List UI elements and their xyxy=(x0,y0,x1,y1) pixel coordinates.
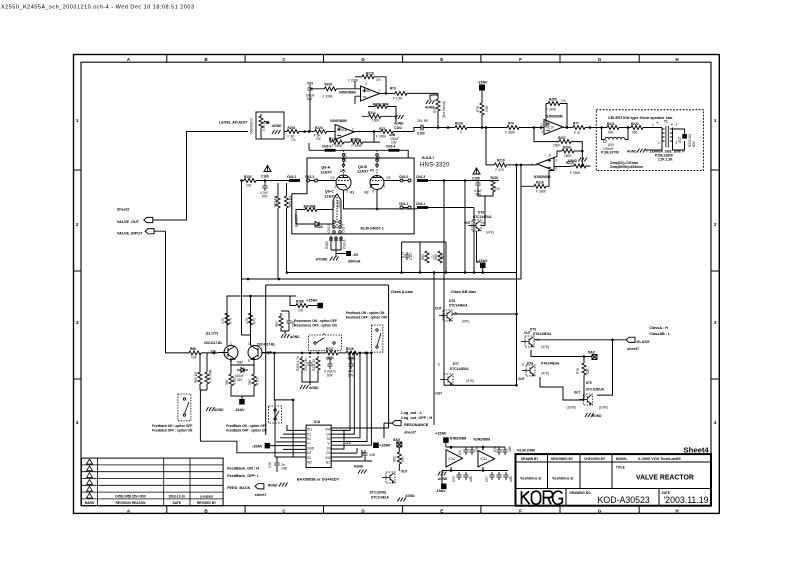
svg-text:DT2 (100K): DT2 (100K) xyxy=(370,491,387,495)
resistor R66 xyxy=(189,351,201,355)
input RC on grid wire xyxy=(242,180,245,182)
wire VALVE input net down xyxy=(242,181,251,336)
resistor R82 vertical xyxy=(398,447,400,452)
svg-text:Class AB bias: Class AB bias xyxy=(451,290,476,294)
svg-text:R218: R218 xyxy=(366,72,374,76)
svg-text:1%: 1% xyxy=(376,78,381,82)
column ticks top xyxy=(167,55,639,63)
wire to speaker box xyxy=(585,127,596,129)
resistor R210 loop lower xyxy=(521,165,534,186)
svg-text:DTC144EUA: DTC144EUA xyxy=(450,367,469,371)
svg-text:R217: R217 xyxy=(326,347,334,351)
svg-text:AGND: AGND xyxy=(438,477,448,481)
svg-text:3: 3 xyxy=(346,190,348,194)
resistor R208 xyxy=(344,141,351,143)
wire DT4 out chain xyxy=(540,377,583,400)
svg-text:-6V: -6V xyxy=(353,253,359,257)
connector arrow GLASS xyxy=(626,337,635,342)
big option box xyxy=(266,285,389,435)
switch SW dashed bottom-left xyxy=(178,394,191,421)
svg-text:F 324K: F 324K xyxy=(546,108,557,112)
svg-text:IN1: IN1 xyxy=(307,428,312,432)
svg-text:560: 560 xyxy=(632,131,638,135)
svg-text:60V: 60V xyxy=(692,140,696,147)
svg-text:X-2950 VOX ToneLabSE: X-2950 VOX ToneLabSE xyxy=(638,457,681,461)
svg-text:CHECKED BY: CHECKED BY xyxy=(584,457,606,461)
svg-text:KLM-2406T-1: KLM-2406T-1 xyxy=(361,227,384,231)
resistor R223 xyxy=(315,130,327,134)
resistor R80 xyxy=(438,251,442,263)
pot VR 500KB box xyxy=(256,112,284,139)
svg-text:HNS-3320: HNS-3320 xyxy=(420,162,450,168)
svg-text:R62 1M: R62 1M xyxy=(274,195,278,207)
svg-text:R221: R221 xyxy=(607,122,615,126)
svg-text:HTGND: HTGND xyxy=(316,258,328,262)
wire VALVE_INPUT down to Q4 base line xyxy=(154,231,189,353)
grid wire right xyxy=(384,180,400,182)
capacitor C96 xyxy=(274,460,279,468)
svg-text:R2: R2 xyxy=(387,176,391,180)
svg-text:C98: C98 xyxy=(326,357,332,361)
feedback tap wire xyxy=(274,353,293,457)
svg-text:CN2-4: CN2-4 xyxy=(386,145,395,149)
svg-text:R70: R70 xyxy=(229,318,233,324)
svg-text:Zimp(800Hz)=653ohm: Zimp(800Hz)=653ohm xyxy=(610,165,643,169)
svg-text:K1: K1 xyxy=(350,191,354,195)
svg-text:D4: D4 xyxy=(326,432,330,436)
svg-text:F 330K: F 330K xyxy=(570,171,581,175)
resistor R218 feedback xyxy=(355,76,362,78)
switch SW dashed 2 xyxy=(371,325,383,352)
svg-text:P19ILSY700: P19ILSY700 xyxy=(601,151,619,155)
svg-text:VALVE REACTOR: VALVE REACTOR xyxy=(636,474,694,481)
svg-text:-15AV: -15AV xyxy=(477,81,488,85)
svg-text:VALVE_INPUT: VALVE_INPUT xyxy=(117,231,143,235)
svg-text:R205: R205 xyxy=(549,98,557,102)
wire R203 to opamp stage xyxy=(299,131,315,133)
svg-text:C107: C107 xyxy=(409,252,413,260)
connector CN2-4 xyxy=(389,149,400,152)
op-amp U3 NJM2068M xyxy=(544,120,563,135)
svg-text:Resonance ON : option OFF: Resonance ON : option OFF xyxy=(294,319,337,323)
svg-text:-15AV: -15AV xyxy=(252,444,263,448)
column ticks bottom xyxy=(167,506,639,514)
inductor L2 xyxy=(605,137,625,139)
svg-text:DTC115EUA: DTC115EUA xyxy=(586,388,605,392)
svg-text:Yoshihiro-S: Yoshihiro-S xyxy=(520,477,541,481)
resistor R209 xyxy=(324,87,336,91)
svg-text:150K: 150K xyxy=(372,119,380,123)
svg-text:1: 1 xyxy=(714,118,717,123)
svg-text:Q6-A: Q6-A xyxy=(321,166,330,170)
svg-text:R63 1M: R63 1M xyxy=(289,195,293,207)
wire to transformer xyxy=(643,127,662,129)
svg-text:u0B: u0B xyxy=(469,476,473,482)
resistor R205 feedback xyxy=(546,104,548,128)
LED3 xyxy=(296,218,315,224)
board outline KLM-2406T-1 xyxy=(292,158,414,234)
svg-text:OUT: OUT xyxy=(678,136,682,143)
svg-text:7: 7 xyxy=(379,89,381,93)
resistor R78 vertical xyxy=(583,357,585,364)
svg-text:2: 2 xyxy=(541,123,543,127)
svg-text:Q6-B: Q6-B xyxy=(358,165,367,169)
wire pot to R203 xyxy=(284,131,287,133)
svg-text:Resonance OFF : option ON: Resonance OFF : option ON xyxy=(294,324,337,328)
vertical nets from tube block xyxy=(464,181,466,273)
svg-text:R204: R204 xyxy=(563,146,571,150)
wire heater to -6V xyxy=(331,250,346,254)
svg-text:Feedback OFF : option ON: Feedback OFF : option ON xyxy=(152,429,193,433)
svg-text:R76: R76 xyxy=(476,106,480,112)
svg-text:RGND: RGND xyxy=(592,414,602,418)
row numbers left xyxy=(76,118,79,425)
svg-text:Sheet2: Sheet2 xyxy=(117,208,129,212)
svg-text:DATE: DATE xyxy=(173,501,181,505)
svg-text:AGND: AGND xyxy=(290,335,300,339)
svg-text:IC11: IC11 xyxy=(481,457,488,461)
svg-text:NJM2068M: NJM2068M xyxy=(330,119,347,123)
svg-text:AGND: AGND xyxy=(405,494,415,498)
svg-text:3: 3 xyxy=(76,320,79,325)
svg-text:CN2-5: CN2-5 xyxy=(344,153,348,162)
svg-text:NJM2068M: NJM2068M xyxy=(534,175,551,179)
wire C168/R220 tap xyxy=(465,181,499,226)
svg-text:DT5: DT5 xyxy=(586,381,592,385)
connector CN2-1 xyxy=(400,206,411,209)
collector rail xyxy=(227,296,296,346)
svg-text:R213: R213 xyxy=(329,138,337,142)
resistor R224 xyxy=(455,126,467,130)
svg-text:OUT: OUT xyxy=(524,331,531,335)
column letters top xyxy=(127,57,680,62)
pot wiper xyxy=(259,116,263,128)
svg-text:T1: T1 xyxy=(664,120,668,124)
warning triangle C168 xyxy=(473,168,480,174)
pin circles under Q6-C xyxy=(333,221,342,234)
svg-text:DTC144EUA: DTC144EUA xyxy=(449,304,468,308)
long feed wires from upper-left xyxy=(200,390,306,453)
svg-text:S4: S4 xyxy=(327,437,331,441)
svg-text:1%: 1% xyxy=(561,99,566,103)
svg-text:IC10: IC10 xyxy=(449,457,456,461)
svg-text:DTA144EUA: DTA144EUA xyxy=(541,362,560,366)
wire DT3 to GLASS xyxy=(534,339,626,341)
capacitor C107 xyxy=(404,252,409,260)
svg-text:Sheet4: Sheet4 xyxy=(684,445,710,454)
svg-text:5AV: 5AV xyxy=(393,438,401,442)
svg-text:G: G xyxy=(598,508,602,513)
svg-text:R214: R214 xyxy=(368,111,376,115)
svg-text:R206 150K: R206 150K xyxy=(373,103,390,107)
wire jog to main line xyxy=(414,128,418,132)
resistor R206 xyxy=(375,105,387,109)
svg-text:(47K): (47K) xyxy=(462,320,470,324)
svg-text:33K: 33K xyxy=(248,378,252,385)
caps top xyxy=(463,447,468,455)
svg-text:DT7: DT7 xyxy=(453,362,459,366)
svg-text:C96: C96 xyxy=(268,462,272,468)
svg-text:FeedBack OFF : option ON: FeedBack OFF : option ON xyxy=(226,429,267,433)
svg-text:REVISED BY: REVISED BY xyxy=(197,501,217,505)
svg-text:LEVEL ADJUST: LEVEL ADJUST xyxy=(219,121,248,125)
svg-text:TLC: TLC xyxy=(345,441,352,445)
svg-text:CN2-7: CN2-7 xyxy=(342,224,346,233)
wire DT7 in xyxy=(453,384,517,386)
svg-text:u0B: u0B xyxy=(509,476,513,482)
connector arrow VALVE_INPUT xyxy=(145,229,154,234)
svg-text:DRAWING NO.: DRAWING NO. xyxy=(570,491,592,495)
svg-text:R223: R223 xyxy=(315,126,323,130)
svg-text:DT3: DT3 xyxy=(530,328,536,332)
bias network box xyxy=(402,242,446,273)
frame outer border xyxy=(74,55,720,514)
vertical nets into IC8 xyxy=(331,353,371,445)
svg-text:NJM2068M: NJM2068M xyxy=(474,438,491,442)
svg-text:3: 3 xyxy=(676,123,678,127)
power -15AV bottom xyxy=(239,399,245,405)
svg-text:1%: 1% xyxy=(316,137,321,141)
svg-text:2.2K:1.2K: 2.2K:1.2K xyxy=(658,157,673,161)
wire main xyxy=(426,127,455,129)
svg-text:C168: C168 xyxy=(472,177,480,181)
svg-text:50V: 50V xyxy=(476,193,483,197)
svg-text:X2550_K2455A_sch_20031210.sch-: X2550_K2455A_sch_20031210.sch-4 - Wed De… xyxy=(1,5,194,11)
connector arrow VALVE_OUT xyxy=(144,217,153,222)
frame inner border xyxy=(81,62,711,506)
switch SW dashed 1 xyxy=(309,333,342,351)
svg-text:D3: D3 xyxy=(326,451,330,455)
svg-text:OUT: OUT xyxy=(518,377,525,381)
svg-text:3.3K B: 3.3K B xyxy=(262,121,266,131)
resistor R159 vertical xyxy=(252,374,256,386)
svg-text:C97: C97 xyxy=(237,361,243,365)
svg-text:R74: R74 xyxy=(508,122,514,126)
svg-text:F 330K: F 330K xyxy=(536,190,547,194)
wire emitters to -15AV xyxy=(231,370,254,399)
svg-text:2SC4117-BL: 2SC4117-BL xyxy=(257,343,275,347)
wire DT3 emitter to 5AV xyxy=(531,350,592,357)
svg-text:6: 6 xyxy=(556,167,558,171)
resistor R207 loop xyxy=(534,128,559,142)
svg-text:CN2-2: CN2-2 xyxy=(305,175,314,179)
svg-text:sheet7: sheet7 xyxy=(627,347,639,351)
wire R73 to right xyxy=(407,92,438,94)
svg-text:+15AV: +15AV xyxy=(306,299,318,303)
svg-text:R222: R222 xyxy=(631,122,639,126)
svg-text:F 330K: F 330K xyxy=(352,144,363,148)
cathode bus xyxy=(344,190,418,209)
svg-text:+15AV: +15AV xyxy=(435,432,447,436)
svg-text:R209: R209 xyxy=(325,83,333,87)
svg-text:ClassAB : L: ClassAB : L xyxy=(649,332,671,336)
svg-text:GLASS: GLASS xyxy=(636,340,650,344)
svg-text:150K: 150K xyxy=(564,154,572,158)
svg-text:S3: S3 xyxy=(327,446,331,450)
OUT square xyxy=(682,134,687,139)
svg-text:L2: L2 xyxy=(603,140,607,144)
svg-text:C/u: C/u xyxy=(458,450,462,455)
svg-text:DTA144EUA: DTA144EUA xyxy=(533,332,552,336)
svg-text:Yoshihiro-S: Yoshihiro-S xyxy=(552,477,573,481)
power -6V xyxy=(346,251,351,256)
svg-text:4.7K: 4.7K xyxy=(221,317,225,324)
svg-text:CN2-5: CN2-5 xyxy=(327,224,331,233)
resistor R81 xyxy=(425,251,429,263)
resistor R71 vertical xyxy=(249,313,253,325)
resistor R70 vertical xyxy=(225,313,229,325)
svg-text:R220: R220 xyxy=(491,176,499,180)
capacitor C99 xyxy=(393,131,414,133)
svg-text:R160: R160 xyxy=(325,241,329,249)
resistor R72 xyxy=(381,130,393,134)
svg-text:4: 4 xyxy=(714,420,717,425)
svg-text:R78: R78 xyxy=(576,368,580,374)
svg-text:1: 1 xyxy=(352,128,354,132)
svg-text:DTC114E1A: DTC114E1A xyxy=(371,496,390,500)
svg-text:MODEL: MODEL xyxy=(616,457,628,461)
svg-text:C56: C56 xyxy=(475,446,479,452)
svg-text:AGND: AGND xyxy=(214,408,224,412)
svg-text:R67: R67 xyxy=(275,321,279,327)
svg-text:R66: R66 xyxy=(190,347,196,351)
svg-text:G: G xyxy=(598,57,602,62)
connector CN2-3b xyxy=(417,179,428,182)
heater pins below board xyxy=(329,236,343,250)
svg-text:AGND: AGND xyxy=(394,122,404,126)
svg-text:R77: R77 xyxy=(573,122,579,126)
svg-text:R205 4.7K: R205 4.7K xyxy=(296,355,300,371)
svg-text:Q4: Q4 xyxy=(211,350,217,354)
svg-text:CN3-2: CN3-2 xyxy=(287,175,296,179)
svg-text:F 330K: F 330K xyxy=(505,131,516,135)
svg-text:50V: 50V xyxy=(327,373,334,377)
svg-text:FeedBack_ON : H: FeedBack_ON : H xyxy=(227,467,259,471)
svg-text:+15AV: +15AV xyxy=(379,444,391,448)
svg-text:MARK: MARK xyxy=(85,501,95,505)
svg-text:C102: C102 xyxy=(394,126,402,130)
svg-text:OUT: OUT xyxy=(574,391,581,395)
resistor R203 xyxy=(287,130,299,134)
svg-text:R82: R82 xyxy=(393,456,397,462)
svg-text:Log_out_OFF : H: Log_out_OFF : H xyxy=(401,416,432,420)
wire transformer pin2/4 ground xyxy=(645,141,685,150)
op-amp U2 NJM2068M xyxy=(335,125,354,140)
svg-text:R80: R80 xyxy=(434,254,438,260)
svg-text:12AX7: 12AX7 xyxy=(357,170,369,174)
wire transformer secondary to OUT xyxy=(673,129,685,134)
svg-text:4: 4 xyxy=(76,420,79,425)
svg-text:NJM2068M: NJM2068M xyxy=(450,437,467,441)
svg-text:R169: R169 xyxy=(233,377,237,385)
svg-text:R168: R168 xyxy=(296,300,304,304)
wire DT6 in xyxy=(452,313,517,315)
svg-text:C83: C83 xyxy=(307,82,313,86)
svg-text:F 47: F 47 xyxy=(574,131,581,135)
resistor R168 xyxy=(296,304,308,308)
svg-text:500KB(CJ): 500KB(CJ) xyxy=(250,118,254,134)
svg-text:+: + xyxy=(671,123,673,127)
ground AGND top right xyxy=(426,100,435,104)
svg-text:C55: C55 xyxy=(452,476,456,482)
svg-text:CN2-3: CN2-3 xyxy=(322,145,331,149)
svg-text:RESONANCE: RESONANCE xyxy=(404,423,429,427)
svg-text:3: 3 xyxy=(541,130,543,134)
ground AGND under R67 xyxy=(281,334,290,338)
svg-text:C57: C57 xyxy=(485,476,489,482)
svg-text:6: 6 xyxy=(372,190,374,194)
resistor R219 xyxy=(495,163,507,167)
svg-text:C169: C169 xyxy=(261,175,269,179)
svg-text:K2: K2 xyxy=(365,191,369,195)
svg-text:NC: NC xyxy=(326,461,331,465)
dashed box CELESTION speaker sim xyxy=(596,110,703,171)
svg-text:220: 220 xyxy=(495,187,501,191)
svg-text:2: 2 xyxy=(714,222,717,227)
svg-text:D2: D2 xyxy=(307,451,311,455)
svg-text:5.6K: 5.6K xyxy=(485,105,489,112)
wire U2 output line xyxy=(354,131,381,133)
capacitor C98 xyxy=(329,359,331,361)
svg-text:R215: R215 xyxy=(566,161,574,165)
svg-text:2SC4117-BL: 2SC4117-BL xyxy=(204,341,222,345)
svg-text:NJM2068M: NJM2068M xyxy=(546,115,563,119)
svg-text:R71: R71 xyxy=(253,318,257,324)
resistor R77 xyxy=(573,126,585,130)
main emitter line xyxy=(262,352,326,354)
svg-text:J5-4U3-7: J5-4U3-7 xyxy=(421,156,435,160)
svg-text:(Not Mount): (Not Mount) xyxy=(442,101,446,118)
svg-text:-15AV: -15AV xyxy=(234,408,245,412)
resistor R76 vertical xyxy=(480,103,484,115)
svg-text:E: E xyxy=(248,359,250,363)
svg-text:(47K): (47K) xyxy=(466,379,474,383)
svg-text:LED3: LED3 xyxy=(315,225,323,229)
svg-text:S1: S1 xyxy=(307,437,311,441)
svg-text:220: 220 xyxy=(246,184,252,188)
svg-text:1%: 1% xyxy=(291,138,296,142)
svg-text:8: 8 xyxy=(549,154,551,158)
svg-text:1P1: 1P1 xyxy=(340,169,346,173)
svg-text:4: 4 xyxy=(365,82,367,86)
svg-text:300mA: 300mA xyxy=(348,260,361,264)
svg-text:DT8: DT8 xyxy=(478,211,484,215)
connector CN3-1 xyxy=(417,206,428,209)
svg-text:u0B: u0B xyxy=(370,453,376,457)
ground AGND right of R214 xyxy=(395,115,404,119)
wire into box xyxy=(596,127,607,129)
svg-text:F 1.5K: F 1.5K xyxy=(393,97,403,101)
revision mark triangles xyxy=(87,459,93,498)
capacitor C104 xyxy=(350,359,352,361)
svg-text:2: 2 xyxy=(335,185,337,189)
resistor R152 xyxy=(244,179,256,183)
resistor R64 xyxy=(305,208,317,212)
connector CN3-2 xyxy=(289,179,300,182)
svg-text:BA6458F: BA6458F xyxy=(295,214,299,227)
svg-text:AGND: AGND xyxy=(309,386,319,390)
resistor R169 vertical xyxy=(229,374,233,386)
svg-text:IN2: IN2 xyxy=(307,461,312,465)
capacitor C95 xyxy=(362,450,367,458)
svg-text:R72: R72 xyxy=(379,127,385,131)
svg-text:NJM2068M: NJM2068M xyxy=(339,91,356,95)
svg-text:FeedBack ON : option OFF: FeedBack ON : option OFF xyxy=(226,424,267,428)
svg-text:IN4: IN4 xyxy=(326,428,331,432)
resistor R221 xyxy=(607,126,619,130)
svg-text:3C63: 3C63 xyxy=(337,200,341,208)
grid bias resistors xyxy=(278,183,287,279)
